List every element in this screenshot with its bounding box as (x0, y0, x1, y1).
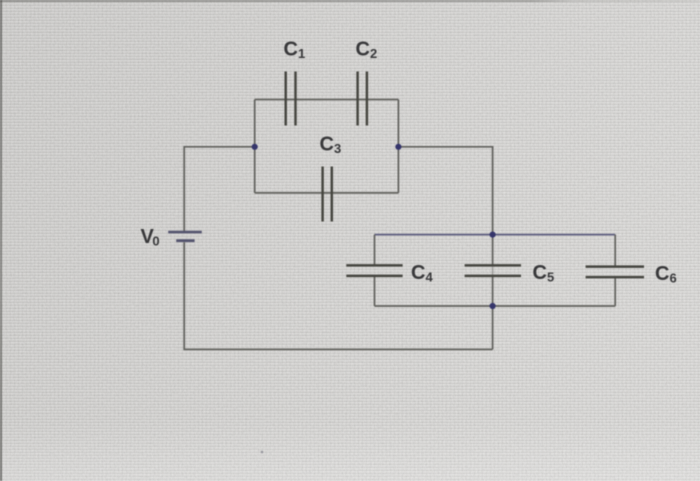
wire: top rail of capacitor bank (375, 234, 616, 236)
capacitor C5 (465, 265, 521, 276)
wire: parallel block right edge (397, 100, 399, 193)
capacitor C3 (323, 167, 332, 222)
svg-text:C5: C5 (533, 262, 555, 285)
junction dot at bottom rail (490, 303, 496, 309)
wire: from battery bottom down, along bottom, up to node under C5 bank (184, 242, 492, 349)
node A: left junction dot (252, 144, 258, 150)
battery V0 positive plate (168, 231, 202, 234)
junction dot at top rail (490, 232, 496, 238)
page top edge (0, 0, 700, 2)
svg-text:V0: V0 (141, 226, 160, 249)
capacitor C6 (586, 267, 644, 278)
capacitor C4 (346, 265, 402, 276)
svg-text:C1: C1 (284, 39, 306, 62)
svg-text:C6: C6 (655, 263, 677, 286)
capacitor C1 (286, 72, 296, 126)
wire: bottom branch through C3 (255, 192, 399, 194)
wire: bottom rail of capacitor bank (375, 305, 616, 307)
wire: parallel block left edge (254, 100, 256, 193)
battery V0 negative plate (176, 239, 194, 242)
svg-text:C2: C2 (356, 39, 378, 62)
dust speck (261, 451, 264, 454)
page left edge (0, 0, 2, 481)
svg-text:C3: C3 (320, 134, 342, 157)
wire: top branch through C1 and C2 (255, 99, 399, 101)
wire: C4 branch stubs (374, 235, 376, 306)
wire: C6 branch stubs (614, 235, 616, 306)
capacitor C2 (358, 72, 367, 126)
svg-text:C4: C4 (411, 262, 433, 285)
wire: left branch, battery top up to corner then right to node A (184, 147, 255, 231)
wire: node B right then down through C5 bank to bottom wire (398, 147, 492, 350)
node B: right junction dot (395, 144, 401, 150)
